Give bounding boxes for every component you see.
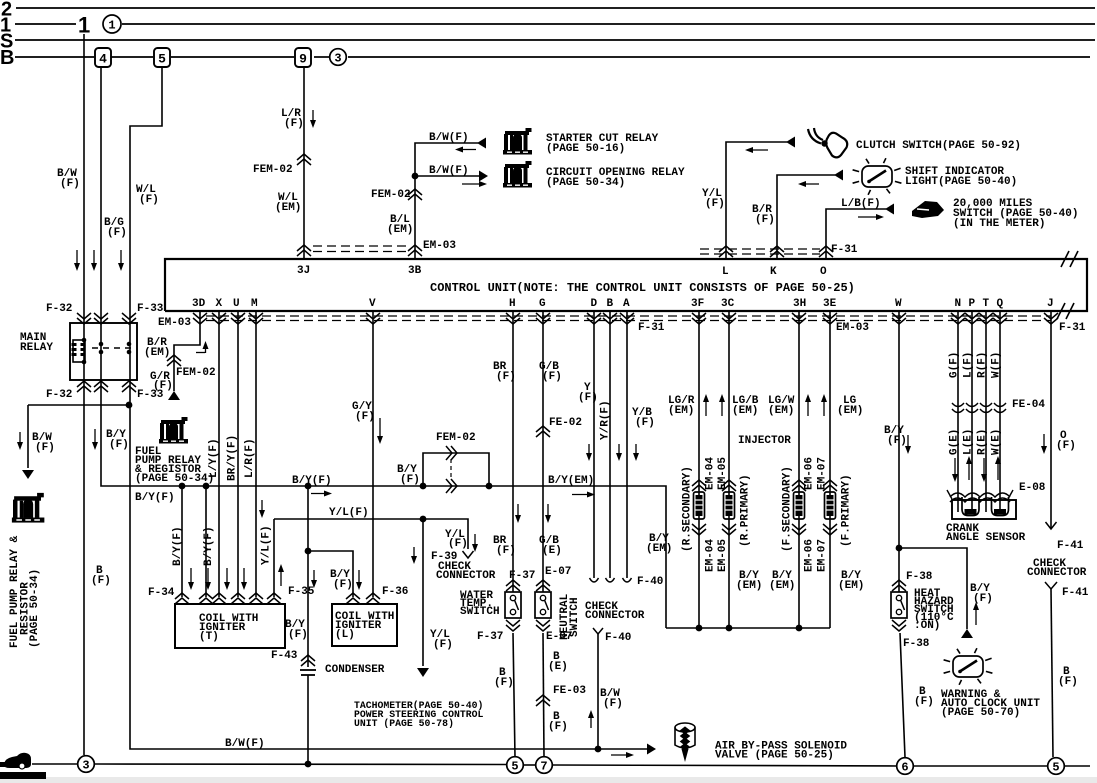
wire to 20000 miles switch bbox=[826, 209, 886, 259]
flow arrow F-39 bbox=[472, 534, 478, 552]
label E-07 upper bbox=[545, 566, 571, 578]
svg-text:CONNECTOR: CONNECTOR bbox=[1027, 567, 1087, 579]
svg-text:D: D bbox=[591, 298, 598, 310]
svg-text:(R.PRIMARY): (R.PRIMARY) bbox=[740, 474, 752, 547]
svg-text:F-38: F-38 bbox=[906, 571, 933, 583]
label L/R (F) bbox=[281, 108, 304, 130]
car body icon bbox=[0, 753, 31, 769]
fuel pump relay icon (mid) bbox=[159, 417, 188, 444]
svg-text:INJECTOR: INJECTOR bbox=[738, 435, 791, 447]
inline connector FEM-02 on 3J wire bbox=[297, 154, 311, 165]
flow arrow into coil L bbox=[356, 570, 362, 590]
terminal 3J label bbox=[297, 265, 310, 277]
label F-37 lower bbox=[477, 631, 503, 643]
bus line 2 bbox=[16, 7, 1095, 9]
label BR (F) upper bbox=[493, 361, 516, 383]
circled terminal 6 (bottom) bbox=[897, 758, 914, 775]
flow arrow to left (starter) bbox=[455, 147, 476, 153]
label F-43 bbox=[271, 650, 298, 662]
svg-text:(PAGE 50-70): (PAGE 50-70) bbox=[941, 707, 1020, 719]
svg-text:Y/R(F): Y/R(F) bbox=[600, 400, 612, 440]
svg-text:P: P bbox=[969, 298, 976, 310]
svg-text:3D: 3D bbox=[192, 298, 206, 310]
wire shield9 to 3J bbox=[303, 67, 305, 259]
label B/Y (F) warning bbox=[970, 583, 993, 605]
bus line 1 left bbox=[15, 23, 76, 25]
flow arrow B/Y(EM) bbox=[572, 492, 595, 498]
terminal 3B label bbox=[408, 265, 422, 277]
svg-text:3E: 3E bbox=[823, 298, 837, 310]
wire W upper bbox=[898, 311, 900, 592]
label F-38 lower bbox=[903, 638, 930, 650]
svg-text:(F): (F) bbox=[35, 442, 55, 454]
air by-pass solenoid icon bbox=[675, 723, 695, 762]
chevron above 3B terminal bbox=[408, 245, 422, 256]
rotated label L/Y(F) bbox=[208, 438, 220, 478]
junction dot at (129,405) bbox=[126, 402, 133, 409]
wire B/W branch to fuel pump relay bbox=[28, 405, 129, 468]
flow arrow J bbox=[1041, 434, 1047, 454]
rotated label EM-06 upper bbox=[804, 457, 816, 490]
label LG (EM) bbox=[837, 395, 863, 417]
circled terminal 7 (bottom) bbox=[536, 757, 553, 774]
terminator shift bbox=[834, 170, 843, 181]
chevron above heat hazard switch bbox=[892, 580, 906, 591]
flow arrow out of coil T (Y/L) bbox=[278, 564, 284, 586]
label B/G (F) wire101 bbox=[104, 217, 127, 239]
bus line B segments bbox=[15, 56, 1090, 58]
svg-text:F-35: F-35 bbox=[288, 586, 315, 598]
label B/L (EM) bbox=[387, 214, 413, 236]
flow arrow B/Y below relay bbox=[92, 429, 98, 450]
bus label S bbox=[0, 31, 13, 53]
connector shield 9 bbox=[295, 48, 311, 67]
svg-text:(PAGE 50-34): (PAGE 50-34) bbox=[29, 569, 41, 648]
connector shield 5 bbox=[154, 48, 170, 67]
svg-text:(F): (F) bbox=[496, 371, 516, 383]
label F-31 far-right bbox=[1059, 322, 1086, 334]
shift indicator light icon bbox=[853, 158, 902, 195]
svg-text:EM-07: EM-07 bbox=[817, 539, 829, 572]
hook arrow at 3D bbox=[196, 341, 209, 353]
svg-text:FEM-02: FEM-02 bbox=[436, 432, 476, 444]
label B/Y (F) coil L bbox=[330, 569, 353, 591]
rotated label (R.SECONDARY) bbox=[682, 466, 694, 552]
svg-text:FEM-02: FEM-02 bbox=[253, 164, 293, 176]
chevron above 3J terminal bbox=[297, 245, 311, 256]
terminator to starter cut relay bbox=[477, 138, 486, 149]
svg-text:3F: 3F bbox=[691, 298, 704, 310]
check connector fork F-40 bbox=[593, 628, 603, 634]
svg-text:EM-05: EM-05 bbox=[717, 457, 729, 490]
svg-text:(F): (F) bbox=[355, 411, 375, 423]
svg-text:F-31: F-31 bbox=[1059, 322, 1086, 334]
svg-text:(F): (F) bbox=[107, 227, 127, 239]
junction dot condenser branch bbox=[305, 483, 312, 490]
rotated label EM-04 upper bbox=[705, 457, 717, 490]
dashed boundary 3J-3B bbox=[313, 246, 408, 252]
label FE-02 bbox=[549, 417, 582, 429]
chevron above neutral switch bbox=[536, 580, 550, 591]
svg-text:EM-04: EM-04 bbox=[705, 539, 717, 572]
flow arrow clutch bbox=[745, 147, 768, 153]
svg-text:L/R(F): L/R(F) bbox=[244, 438, 256, 478]
svg-text:(EM): (EM) bbox=[732, 405, 758, 417]
rotated label BR/Y(F) bbox=[227, 435, 239, 481]
main relay contact 1 bbox=[99, 342, 104, 355]
wire to clutch switch bbox=[726, 142, 787, 259]
svg-text:(F): (F) bbox=[494, 677, 514, 689]
water temp switch symbol bbox=[505, 592, 521, 618]
flow arrow warning branch bbox=[973, 602, 979, 625]
flow arrow B/Y mid bbox=[311, 491, 332, 497]
label CLUTCH SWITCH bbox=[856, 140, 1021, 152]
label F-32 upper bbox=[46, 303, 72, 315]
connector F-43 chevron bbox=[301, 655, 315, 666]
label EM-03 (3B) bbox=[423, 240, 456, 252]
svg-text:B/W(F): B/W(F) bbox=[225, 738, 265, 750]
label COIL WITH IGNITER (T) bbox=[199, 613, 258, 643]
clutch pedal icon bbox=[808, 128, 847, 157]
svg-text:VALVE (PAGE 50-25): VALVE (PAGE 50-25) bbox=[715, 750, 834, 762]
svg-text:(EM): (EM) bbox=[736, 580, 762, 592]
circled terminal 1 bbox=[103, 15, 121, 33]
label B/Y (F) W bbox=[884, 425, 907, 447]
label WARNING & AUTO CLOCK UNIT bbox=[941, 689, 1040, 719]
wire end hooks F-40 bbox=[590, 578, 632, 582]
svg-text:1: 1 bbox=[78, 13, 90, 38]
svg-text:ANGLE SENSOR: ANGLE SENSOR bbox=[946, 532, 1026, 544]
svg-text:(F): (F) bbox=[914, 696, 934, 708]
svg-text:M: M bbox=[251, 298, 258, 310]
label L/B(F) bbox=[841, 198, 881, 210]
wire H lower bbox=[513, 633, 515, 757]
svg-text:F-31: F-31 bbox=[638, 322, 665, 334]
label B/Y (EM) f.primary bbox=[838, 570, 864, 592]
svg-text:CONTROL UNIT(NOTE: THE CONTROL: CONTROL UNIT(NOTE: THE CONTROL UNIT CONS… bbox=[430, 281, 855, 295]
svg-text:L/B(F): L/B(F) bbox=[841, 198, 881, 210]
label F-39 bbox=[431, 551, 457, 563]
label F-33 lower bbox=[137, 389, 164, 401]
label BR (F) lower bbox=[493, 535, 516, 557]
coil T feed wire 1 bbox=[181, 486, 183, 597]
label CRANK ANGLE SENSOR bbox=[946, 523, 1026, 544]
label COIL WITH IGNITER (L) bbox=[335, 611, 394, 641]
svg-text:X: X bbox=[216, 298, 223, 310]
flow arrows into coil T bbox=[188, 568, 247, 590]
svg-text:(EM): (EM) bbox=[769, 580, 795, 592]
junction dot condenser to ground bus bbox=[305, 761, 312, 768]
svg-text:3J: 3J bbox=[297, 265, 310, 277]
svg-text:(F.SECONDARY): (F.SECONDARY) bbox=[782, 466, 794, 552]
junction dot coil L branch bbox=[305, 548, 312, 555]
svg-text:BR/Y(F): BR/Y(F) bbox=[227, 435, 239, 481]
label Y/L (F) F-39 bbox=[445, 529, 468, 550]
svg-text::ON): :ON) bbox=[914, 620, 940, 632]
flow arrow wire84 bbox=[74, 250, 80, 271]
svg-text:G(E): G(E) bbox=[949, 429, 961, 455]
svg-text:(E): (E) bbox=[542, 545, 562, 557]
svg-text:U: U bbox=[233, 298, 240, 310]
svg-text:(F): (F) bbox=[433, 639, 453, 651]
svg-text:(PAGE 50-34): (PAGE 50-34) bbox=[546, 177, 625, 189]
label O (F) bbox=[1056, 430, 1076, 452]
svg-text:3H: 3H bbox=[793, 298, 806, 310]
label F-36 bbox=[382, 586, 408, 598]
svg-text:(F): (F) bbox=[548, 721, 568, 733]
flow arrows D B A bbox=[586, 444, 639, 461]
svg-text:FEM-02: FEM-02 bbox=[176, 367, 216, 379]
label G/R (F) bbox=[150, 371, 173, 392]
bus label B bbox=[0, 47, 14, 69]
svg-text:(F): (F) bbox=[542, 371, 562, 383]
wire to shift indicator bbox=[777, 175, 835, 259]
coil T feed wire 2 bbox=[205, 486, 207, 597]
svg-text:F-32: F-32 bbox=[46, 303, 72, 315]
svg-text:(F): (F) bbox=[973, 593, 993, 605]
svg-text:(EM): (EM) bbox=[144, 347, 170, 359]
chevron above O terminal bbox=[819, 246, 833, 257]
svg-text:(F): (F) bbox=[109, 439, 129, 451]
wire J lower bbox=[1051, 589, 1053, 757]
label B (F) neutral bbox=[548, 711, 568, 733]
connector shield 4 bbox=[95, 48, 111, 67]
wire U to coil T bbox=[237, 311, 239, 597]
svg-text:(R.SECONDARY): (R.SECONDARY) bbox=[682, 466, 694, 552]
crank angle sensor box bbox=[952, 500, 1016, 519]
svg-text:B/W(F): B/W(F) bbox=[429, 132, 469, 144]
main relay box bbox=[70, 323, 137, 380]
svg-text:9: 9 bbox=[299, 52, 307, 67]
junction dot Y/L tach branch bbox=[420, 516, 427, 523]
svg-text:T: T bbox=[983, 298, 990, 310]
label B/Y (EM) f.secondary bbox=[769, 570, 795, 592]
svg-text:(EM): (EM) bbox=[646, 543, 672, 555]
tachometer feed wire bbox=[422, 519, 424, 666]
label F-34 bbox=[148, 587, 175, 599]
svg-text:Q: Q bbox=[997, 298, 1004, 310]
svg-text:(F): (F) bbox=[333, 579, 353, 591]
label F-33 upper bbox=[137, 303, 164, 315]
svg-text:(EM): (EM) bbox=[668, 405, 694, 417]
label F-37 upper bbox=[509, 570, 535, 582]
label B/R (EM) bbox=[144, 337, 170, 359]
junction dot B/W bottom bbox=[595, 746, 602, 753]
coil with igniter (T) box bbox=[175, 604, 285, 648]
label CIRCUIT OPENING RELAY bbox=[546, 167, 685, 189]
svg-text:FE-03: FE-03 bbox=[553, 685, 586, 697]
fuel pump relay icon (left) bbox=[12, 493, 44, 523]
svg-text:(EM): (EM) bbox=[838, 580, 864, 592]
wire H upper bbox=[512, 311, 514, 592]
wire J upper bbox=[1050, 311, 1052, 529]
label B (F) water temp bbox=[494, 667, 514, 689]
svg-text:F-41: F-41 bbox=[1062, 587, 1089, 599]
svg-text:F-36: F-36 bbox=[382, 586, 408, 598]
label B/Y (EM) r.primary bbox=[736, 570, 762, 592]
svg-text:FE-04: FE-04 bbox=[1012, 399, 1045, 411]
label B/W (F) bottom bbox=[600, 688, 623, 710]
svg-text:F-40: F-40 bbox=[605, 632, 631, 644]
wire A bbox=[626, 311, 628, 578]
terminator air by-pass bbox=[647, 744, 656, 755]
label FEM-02 (3B) bbox=[371, 189, 411, 201]
coil L branch wire bbox=[308, 551, 353, 597]
svg-text:4: 4 bbox=[99, 52, 107, 67]
svg-text:(F): (F) bbox=[1056, 440, 1076, 452]
circled terminal 5 (bottom left) bbox=[507, 757, 524, 774]
label B/W(F) lower bbox=[429, 165, 469, 177]
label F-38 upper bbox=[906, 571, 933, 583]
label B/W (F) branch bbox=[32, 432, 55, 454]
svg-text:7: 7 bbox=[540, 760, 547, 774]
label B/Y (F) condenser bbox=[285, 619, 308, 641]
injector ground bus bbox=[666, 627, 830, 629]
svg-text:(F): (F) bbox=[91, 575, 111, 587]
rotated label B/Y(F) #2 bbox=[203, 526, 215, 566]
label Y/B (F) bbox=[632, 407, 655, 429]
label CHECK CONNECTOR F-41 bbox=[1027, 558, 1087, 579]
crank wire N bbox=[957, 311, 959, 512]
label FEM-02 bridge bbox=[436, 432, 476, 444]
rotated label (R.PRIMARY) bbox=[740, 474, 752, 547]
label Y/L(F) horizontal bbox=[329, 507, 369, 519]
label CHECK CONNECTOR F-40 bbox=[585, 601, 645, 622]
flow arrow 3J wire bbox=[310, 110, 316, 128]
svg-text:(F): (F) bbox=[705, 198, 725, 210]
svg-text:(F): (F) bbox=[284, 118, 304, 130]
svg-text:K: K bbox=[770, 266, 777, 278]
svg-text:G(F): G(F) bbox=[949, 352, 961, 378]
svg-text:5: 5 bbox=[1052, 761, 1059, 775]
svg-text:3: 3 bbox=[334, 52, 341, 66]
inline connector FE-02 bbox=[536, 426, 550, 437]
flow arrow condenser wire bbox=[311, 570, 317, 588]
svg-text:F-37: F-37 bbox=[477, 631, 503, 643]
svg-text:6: 6 bbox=[901, 761, 908, 775]
label HEAT HAZARD SWITCH bbox=[914, 588, 954, 632]
label B/Y(F) left bbox=[135, 492, 175, 504]
label EM-03 mid-right bbox=[836, 322, 869, 334]
chevron below neutral switch bbox=[536, 620, 550, 631]
flow arrow wire130 top bbox=[118, 250, 124, 271]
neutral switch symbol bbox=[535, 592, 551, 618]
connector chevrons above main relay bbox=[77, 313, 136, 324]
circled terminal 3 (top) bbox=[330, 49, 347, 66]
label STARTER CUT RELAY bbox=[546, 133, 659, 155]
bus line S bbox=[15, 39, 1095, 41]
label W/L (EM) bbox=[275, 192, 301, 214]
terminator clutch bbox=[786, 137, 795, 148]
crank wire Q bbox=[999, 311, 1001, 512]
svg-text:F-41: F-41 bbox=[1057, 540, 1084, 552]
label F-31 top bbox=[831, 244, 858, 256]
svg-text:B/Y(F): B/Y(F) bbox=[135, 492, 175, 504]
flow arrow W bbox=[905, 435, 911, 454]
svg-text:(F): (F) bbox=[288, 629, 308, 641]
chevron above water temp switch bbox=[506, 580, 520, 591]
label FEM-02 (3J) bbox=[253, 164, 293, 176]
rotated label EM-04 lower bbox=[705, 539, 717, 572]
wire G lower bbox=[543, 633, 544, 757]
svg-text:(F): (F) bbox=[448, 538, 468, 550]
flow arrow Y/L corner bbox=[259, 500, 265, 518]
label SHIFT INDICATOR LIGHT bbox=[905, 166, 1017, 188]
svg-text:L(E): L(E) bbox=[963, 429, 975, 455]
svg-text:Y/L(F): Y/L(F) bbox=[329, 507, 369, 519]
svg-text:FE-02: FE-02 bbox=[549, 417, 582, 429]
svg-text:EM-03: EM-03 bbox=[836, 322, 869, 334]
main relay contact dashes bbox=[92, 347, 133, 349]
injector wire 3E bbox=[829, 311, 831, 628]
svg-text:EM-06: EM-06 bbox=[804, 539, 816, 572]
label FE-04 bbox=[1012, 399, 1045, 411]
svg-text:B/Y(EM): B/Y(EM) bbox=[548, 475, 594, 487]
svg-text:B/W(F): B/W(F) bbox=[429, 165, 469, 177]
chevron below water temp switch bbox=[506, 620, 520, 631]
label F-32 lower bbox=[46, 389, 72, 401]
svg-text:CONNECTOR: CONNECTOR bbox=[436, 570, 496, 582]
svg-text:F-32: F-32 bbox=[46, 389, 72, 401]
svg-text:(F): (F) bbox=[578, 392, 598, 404]
svg-text:(PAGE 50-16): (PAGE 50-16) bbox=[546, 143, 625, 155]
svg-text:3B: 3B bbox=[408, 265, 422, 277]
label B (F) wire84 bbox=[91, 565, 111, 587]
flow arrow to right (circuit opening) bbox=[462, 181, 487, 187]
label 20,000 MILES SWITCH bbox=[953, 198, 1078, 230]
svg-text:(F): (F) bbox=[496, 545, 516, 557]
label G/Y (F) bbox=[352, 401, 375, 423]
svg-text:(F): (F) bbox=[139, 194, 159, 206]
svg-text:F-34: F-34 bbox=[148, 587, 175, 599]
label G/B (F) bbox=[539, 361, 562, 383]
rotated label L/R(F) bbox=[244, 438, 256, 478]
label B/W(F) upper bbox=[429, 132, 469, 144]
label G/B (E) bbox=[539, 535, 562, 557]
svg-text:1: 1 bbox=[108, 19, 115, 33]
FEM-02 bridge connector bbox=[420, 446, 493, 493]
label B (F) J bbox=[1058, 666, 1078, 688]
crank sensor pin pocket 2 bbox=[992, 497, 1009, 516]
rotated label EM-07 upper bbox=[817, 457, 829, 490]
svg-text:(F): (F) bbox=[153, 380, 173, 392]
rotated label EM-05 upper bbox=[717, 457, 729, 490]
circuit opening relay icon bbox=[503, 161, 532, 188]
control unit caption bbox=[430, 281, 855, 295]
label B/Y (EM) left drop bbox=[646, 533, 672, 555]
main relay coil bbox=[72, 338, 87, 365]
flow arrow B/W up bbox=[588, 710, 594, 728]
svg-text:(EM): (EM) bbox=[387, 224, 413, 236]
bus label 2 bbox=[1, 0, 12, 21]
svg-text:EM-03: EM-03 bbox=[423, 240, 456, 252]
wire V to coil L bbox=[372, 311, 374, 597]
chevrons below control unit bbox=[193, 313, 1058, 324]
junction dots coil T feeds bbox=[179, 483, 210, 490]
inline wave connectors FE-04 bbox=[952, 403, 1006, 413]
bus label 1 bbox=[0, 15, 11, 37]
svg-text:E-07: E-07 bbox=[546, 631, 572, 643]
page arrow down to fuel pump relay bbox=[22, 470, 34, 479]
injector wire 3F bbox=[698, 311, 700, 628]
chevron below heat hazard switch bbox=[892, 620, 906, 631]
svg-text:B/Y(F): B/Y(F) bbox=[203, 526, 215, 566]
label CONDENSER bbox=[325, 664, 385, 676]
svg-text:CONNECTOR: CONNECTOR bbox=[585, 610, 645, 622]
flow arrow bottom run bbox=[611, 752, 634, 758]
label LG/R (EM) bbox=[668, 395, 695, 417]
wire W lower bbox=[900, 633, 905, 757]
